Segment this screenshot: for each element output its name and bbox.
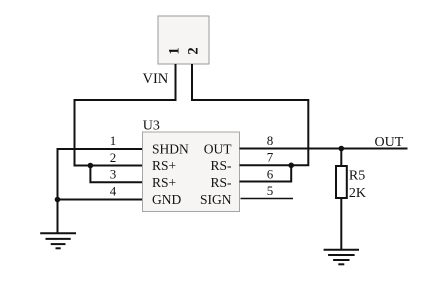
svg-text:OUT: OUT — [375, 135, 404, 150]
connector pin 1 number (rotated) — [166, 47, 182, 54]
svg-text:GND: GND — [152, 192, 181, 207]
svg-text:1: 1 — [166, 47, 182, 54]
svg-text:OUT: OUT — [204, 142, 232, 157]
U3 pin label SHDN — [152, 142, 189, 157]
svg-text:RS-: RS- — [210, 175, 232, 190]
wire: connector pin2 down, right, down to RS- pin7 — [192, 64, 308, 165]
svg-text:R5: R5 — [349, 168, 365, 183]
svg-text:5: 5 — [267, 183, 274, 198]
svg-text:RS+: RS+ — [152, 175, 176, 190]
U3 reference designator — [143, 118, 160, 133]
U3 pin label GND — [152, 192, 181, 207]
wire: OUT pin8 line to right edge — [240, 148, 408, 150]
wire: SIGN pin5 stub — [241, 198, 294, 200]
svg-text:8: 8 — [267, 133, 274, 148]
label 2K — [349, 186, 366, 201]
pin number 5 — [267, 183, 274, 198]
pin number 3 — [110, 167, 117, 182]
ground (left) — [40, 233, 76, 248]
ground (right) — [324, 250, 359, 265]
wire: OUT node down to R5 — [340, 149, 342, 167]
svg-text:RS-: RS- — [210, 158, 232, 173]
U3 pin label RS+ (pin3) — [152, 175, 176, 190]
U3 pin label SIGN — [200, 192, 232, 207]
svg-text:7: 7 — [267, 150, 274, 165]
svg-text:VIN: VIN — [143, 71, 169, 87]
junction: OUT to R5 — [339, 146, 345, 152]
svg-text:2K: 2K — [349, 186, 366, 201]
wire: connector pin1 down, left, down to RS+ pin2 (VIN net) — [75, 64, 176, 166]
connector box (2-pin header) — [158, 16, 209, 64]
pin number 8 — [267, 133, 274, 148]
junction: RS- tie on pin7 line — [288, 163, 294, 169]
net label VIN — [143, 71, 169, 87]
svg-text:6: 6 — [267, 166, 274, 181]
svg-text:RS+: RS+ — [152, 158, 176, 173]
pin number 4 — [110, 184, 117, 199]
connector pin 2 number (rotated) — [185, 47, 201, 54]
pin number 7 — [267, 150, 274, 165]
U3 pin label RS- (pin6) — [210, 175, 232, 190]
U3 pin label RS- (pin7) — [210, 158, 232, 173]
net label OUT — [375, 135, 404, 150]
wire: branch down to RS+ pin3 — [90, 166, 142, 183]
svg-text:2: 2 — [110, 150, 117, 165]
svg-text:3: 3 — [110, 167, 117, 182]
resistor R5 body — [336, 166, 347, 198]
label R5 — [349, 168, 365, 183]
wire: SHDN pin1 left to ground rail — [58, 149, 143, 233]
pin number 2 — [110, 150, 117, 165]
wire: R5 down to ground — [340, 198, 342, 250]
junction: RS+ tie on pin2 line — [88, 163, 94, 169]
junction: GND pin4 tie — [55, 197, 61, 203]
svg-text:4: 4 — [110, 184, 117, 199]
U3 pin label OUT — [204, 142, 232, 157]
wire: branch down to RS- pin6 — [240, 165, 292, 181]
svg-text:2: 2 — [185, 47, 201, 54]
U3 pin label RS+ (pin2) — [152, 158, 176, 173]
pin number 1 — [110, 133, 117, 148]
svg-text:SHDN: SHDN — [152, 142, 189, 157]
pin number 6 — [267, 166, 274, 181]
svg-text:SIGN: SIGN — [200, 192, 232, 207]
svg-text:U3: U3 — [143, 118, 160, 133]
wire: GND pin4 line — [58, 199, 143, 201]
svg-text:1: 1 — [110, 133, 117, 148]
IC U3 body — [143, 132, 240, 212]
